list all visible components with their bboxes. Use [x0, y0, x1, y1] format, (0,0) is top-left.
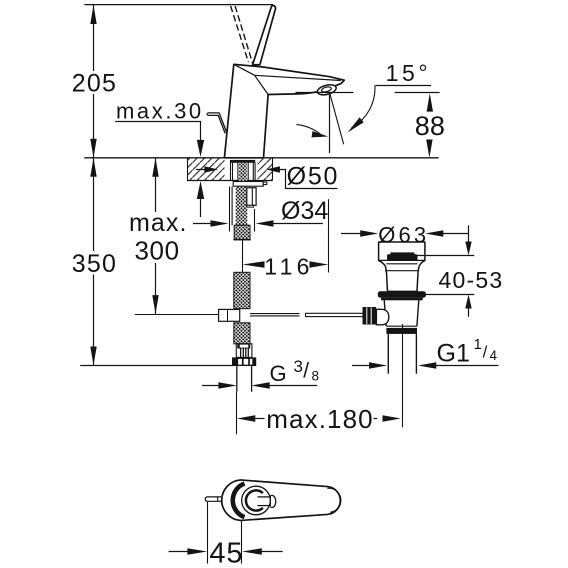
dimension G1 1/4	[352, 336, 498, 369]
hose braid band 3	[234, 323, 250, 344]
pop-up rod at faucet	[207, 113, 227, 133]
drain lower body	[384, 300, 419, 334]
dimension 205	[72, 5, 117, 158]
hose braid band 2	[234, 272, 250, 308]
dimension Ø50 with leader	[196, 163, 339, 191]
svg-text:G: G	[270, 361, 287, 386]
svg-text:300: 300	[135, 235, 180, 265]
threaded shank knurl	[232, 163, 247, 226]
hose nut	[232, 357, 256, 366]
deck section with hatch	[187, 158, 273, 181]
15 degree reference line at spout height	[296, 92, 440, 94]
dashed lever (alternate position)	[231, 6, 253, 64]
hose braid band 1	[233, 225, 250, 240]
dimension 88	[415, 93, 445, 158]
svg-text:max.30: max.30	[116, 99, 204, 124]
faucet body	[224, 64, 344, 158]
svg-text:350: 350	[72, 250, 117, 278]
handle left stub pin	[205, 497, 221, 501]
svg-text:G1: G1	[437, 339, 470, 367]
svg-text:205: 205	[72, 69, 117, 97]
drain seal ring	[378, 291, 426, 300]
15 degree slant line	[330, 93, 344, 145]
handle pin right	[258, 496, 276, 508]
svg-text:88: 88	[415, 111, 445, 141]
svg-text:116: 116	[264, 254, 313, 280]
svg-text:45: 45	[209, 537, 243, 568]
top reference line	[84, 4, 273, 6]
G3/8 nipple	[237, 365, 252, 392]
dimension 116	[243, 199, 329, 279]
dimension 40-53	[416, 225, 504, 316]
handle hub rings	[233, 484, 271, 518]
15 degree vertical line	[329, 93, 331, 153]
svg-text:1: 1	[474, 336, 482, 353]
drain axis extension line	[402, 324, 404, 427]
svg-text:3: 3	[294, 357, 303, 376]
dimension Ø63	[341, 222, 469, 247]
escutcheon flange bar	[230, 160, 255, 163]
pop-up rod horizontal linkage	[135, 313, 363, 316]
svg-text:8: 8	[312, 369, 320, 384]
drain flange body	[379, 242, 425, 291]
svg-text:Ø50: Ø50	[287, 163, 340, 191]
aerator ellipse	[316, 83, 337, 97]
solid lever handle	[253, 5, 276, 64]
350 bottom reference line	[80, 365, 233, 367]
svg-text:40-53: 40-53	[439, 267, 504, 293]
svg-text:/: /	[483, 343, 488, 362]
dimension G3/8	[202, 357, 319, 389]
shank tube lines	[231, 163, 256, 181]
svg-text:Ø34: Ø34	[281, 197, 328, 225]
dimension max.300	[129, 158, 188, 314]
dimension max.180	[237, 404, 401, 434]
drain tailpipe	[388, 334, 416, 374]
svg-text:Ø63: Ø63	[378, 222, 429, 247]
rod clamp on hose	[219, 309, 240, 321]
svg-text:15°: 15°	[386, 60, 432, 86]
hose ferrule	[236, 344, 252, 358]
max.180 left extension line	[236, 392, 238, 435]
dimension Ø34	[193, 187, 328, 232]
15 degree label and arc	[296, 60, 431, 137]
svg-text:/: /	[303, 360, 309, 383]
dimension 350	[72, 158, 117, 366]
rod knob at drain	[363, 307, 377, 325]
mounting c-block	[247, 188, 256, 207]
handle top view outer shape	[222, 480, 341, 521]
svg-text:max.: max.	[129, 209, 188, 237]
svg-text:max.180: max.180	[266, 404, 373, 434]
label max.30 with leader	[115, 99, 204, 218]
hose break centerline	[242, 240, 244, 272]
drain socket ellipse	[376, 309, 388, 325]
svg-text:4: 4	[490, 348, 498, 363]
deck line	[84, 157, 438, 159]
dimension 45	[169, 502, 283, 568]
mounting washer	[233, 182, 267, 187]
